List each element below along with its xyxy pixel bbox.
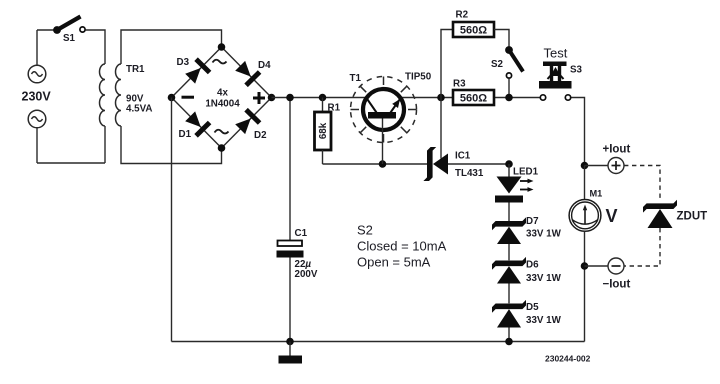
transistor T1 emitter xyxy=(391,99,401,113)
wire anode junction to LED xyxy=(508,164,510,177)
switch S2 xyxy=(505,46,523,97)
svg-text:C1: C1 xyxy=(295,228,308,239)
wire to -Iout xyxy=(585,265,609,267)
svg-text:D7: D7 xyxy=(526,216,539,227)
svg-text:M1: M1 xyxy=(590,189,603,199)
diode D3 xyxy=(183,57,211,85)
svg-text:TR1: TR1 xyxy=(126,64,145,75)
node R3 right junction xyxy=(505,94,513,102)
diode D2 xyxy=(233,108,261,136)
svg-text:560Ω: 560Ω xyxy=(460,93,487,105)
node R1 top xyxy=(319,94,327,102)
zener ZDUT xyxy=(643,200,677,228)
IC1 TL431 cathode xyxy=(423,147,436,181)
AC source G2 xyxy=(28,110,46,128)
svg-text:R1: R1 xyxy=(328,103,341,114)
wire positive rail xyxy=(272,97,540,99)
wire secondary bottom lead xyxy=(121,126,222,164)
svg-text:T1: T1 xyxy=(350,73,362,84)
node output top junction xyxy=(581,162,589,170)
svg-text:V: V xyxy=(606,206,618,226)
svg-text:D3: D3 xyxy=(177,57,190,68)
switch S1 xyxy=(53,17,85,34)
node LED chain top xyxy=(505,160,513,168)
svg-text:R3: R3 xyxy=(453,79,466,90)
node output bottom junction xyxy=(581,262,589,270)
transistor T1 body xyxy=(363,89,404,130)
node C1 top xyxy=(286,94,294,102)
AC source G1 xyxy=(28,65,46,83)
node bridge bottom xyxy=(218,144,226,152)
wire C1 bottom lead xyxy=(289,258,291,342)
bridge edge bottom-right xyxy=(222,98,272,149)
zener D7 xyxy=(492,217,526,244)
IC1 TL431 anode triangle xyxy=(433,154,448,175)
wire C1 top lead xyxy=(289,98,291,241)
wire dashed ZDUT to -Iout xyxy=(624,228,660,266)
ground xyxy=(279,342,303,364)
svg-text:D1: D1 xyxy=(179,129,192,140)
terminal -Iout xyxy=(608,258,624,274)
svg-text:4x: 4x xyxy=(217,88,228,99)
svg-text:Closed = 10mA: Closed = 10mA xyxy=(357,239,447,254)
wire D7 to D6 xyxy=(508,244,510,260)
terminal +Iout xyxy=(608,158,624,174)
svg-text:TIP50: TIP50 xyxy=(405,72,432,83)
svg-text:LED1: LED1 xyxy=(513,167,539,178)
node bridge left xyxy=(168,94,176,102)
svg-text:S1: S1 xyxy=(63,33,76,44)
node LED chain bottom xyxy=(505,338,513,346)
svg-text:D2: D2 xyxy=(254,130,267,141)
wire to +Iout xyxy=(585,165,609,167)
wire base bias line xyxy=(323,163,428,165)
svg-text:68k: 68k xyxy=(318,122,329,139)
wire rail S3 to corner xyxy=(571,98,584,166)
wire dashed +Iout to ZDUT xyxy=(624,166,660,202)
ac tilde bottom xyxy=(215,130,229,134)
diode D4 xyxy=(233,59,261,87)
transistor T1 base bar xyxy=(368,112,396,119)
wire primary bottom lead xyxy=(104,126,106,163)
wire D5 to bottom rail xyxy=(508,328,510,342)
LED LED1 xyxy=(495,177,534,203)
plus sign xyxy=(253,92,265,104)
wire R2 left lead xyxy=(441,30,453,98)
node T1 base junction xyxy=(379,160,387,168)
svg-text:R2: R2 xyxy=(456,10,469,21)
svg-text:ZDUT: ZDUT xyxy=(677,211,708,223)
bridge edge left-top xyxy=(172,47,222,98)
resistor R2 xyxy=(453,22,494,37)
wire T1 base lead xyxy=(382,119,384,165)
svg-text:1N4004: 1N4004 xyxy=(205,99,240,110)
wire D6 to D5 xyxy=(508,284,510,304)
svg-text:560Ω: 560Ω xyxy=(460,25,487,37)
wire mains loop bottom xyxy=(37,162,105,164)
svg-text:S2: S2 xyxy=(491,59,504,70)
node bridge right xyxy=(268,94,276,102)
svg-text:−Iout: −Iout xyxy=(603,279,631,291)
svg-text:S2: S2 xyxy=(357,223,373,238)
ac tilde top xyxy=(213,60,227,64)
svg-text:Test: Test xyxy=(544,46,568,61)
wire secondary top lead xyxy=(121,30,222,64)
transformer TR1 primary winding xyxy=(100,64,105,126)
bridge edge left-bottom xyxy=(172,98,222,149)
wire mains loop top-left xyxy=(37,29,54,31)
wire meter bottom lead xyxy=(584,231,586,341)
pushbutton S3 xyxy=(539,62,572,101)
minus sign xyxy=(182,96,195,99)
svg-text:TL431: TL431 xyxy=(455,168,484,179)
wire meter top lead xyxy=(584,166,586,200)
zener D6 xyxy=(492,257,526,284)
svg-text:+Iout: +Iout xyxy=(603,144,631,156)
wire bottom rail xyxy=(172,341,585,343)
svg-text:33V 1W: 33V 1W xyxy=(526,315,562,326)
svg-text:4.5VA: 4.5VA xyxy=(126,104,153,115)
diode D1 xyxy=(183,110,211,138)
svg-text:D5: D5 xyxy=(526,302,539,313)
svg-text:IC1: IC1 xyxy=(455,151,471,162)
svg-text:S3: S3 xyxy=(570,65,583,76)
svg-text:200V: 200V xyxy=(295,269,318,280)
node bridge top xyxy=(218,43,226,51)
transformer TR1 secondary winding xyxy=(116,64,122,126)
svg-text:D4: D4 xyxy=(258,60,271,71)
wire mains loop left upper xyxy=(36,30,38,65)
wire IC1 anode lead xyxy=(448,163,509,165)
wire IC1 ref lead xyxy=(440,98,442,159)
resistor R1 xyxy=(315,98,332,165)
wire LED1 to D7 xyxy=(508,203,510,222)
svg-text:230244-002: 230244-002 xyxy=(545,354,591,364)
wire R2 right lead xyxy=(494,30,509,47)
transistor T1 envelope dashed xyxy=(351,77,417,143)
wire minus rail vertical xyxy=(171,98,173,342)
bridge edge top-right xyxy=(222,47,272,98)
zener D5 xyxy=(492,300,526,328)
wire mains loop left lower xyxy=(36,128,38,163)
wire primary top lead xyxy=(86,30,105,64)
resistor R3 xyxy=(453,90,494,105)
transistor T1 collector xyxy=(367,99,377,113)
meter M1 xyxy=(569,200,601,232)
capacitor C1 xyxy=(277,241,304,258)
svg-text:230V: 230V xyxy=(22,90,52,104)
node R2 left junction xyxy=(437,94,445,102)
svg-text:D6: D6 xyxy=(526,260,539,271)
node ground junction xyxy=(286,338,294,346)
svg-text:Open = 5mA: Open = 5mA xyxy=(357,255,431,270)
svg-text:33V 1W: 33V 1W xyxy=(526,229,562,240)
svg-text:33V 1W: 33V 1W xyxy=(526,273,562,284)
